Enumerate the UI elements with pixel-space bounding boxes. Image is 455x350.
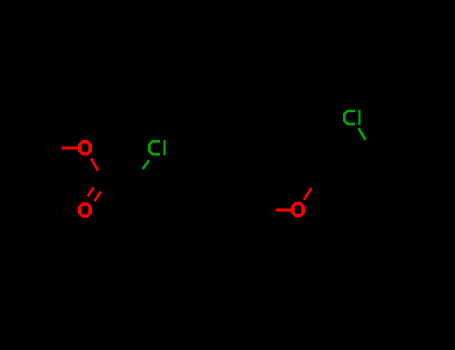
wire: ethyl CH2 to ester O half-bond	[62, 147, 78, 150]
wire: ring C to Cl half-bond (right)	[359, 128, 366, 140]
wire: C=O double bond line 1	[88, 188, 94, 197]
atom O ester	[78, 140, 92, 156]
atom O carbonyl	[78, 202, 92, 218]
atom O ether	[291, 202, 305, 218]
wire: CH to Cl half-bond (left)	[143, 160, 150, 169]
wire: C=O double bond line 2	[95, 192, 101, 202]
wire: ether O to benzyl CH2 half-bond	[304, 188, 311, 200]
wire: phenyl to ether O half-bond	[276, 209, 292, 212]
wire: ester O to carbonyl C half-bond	[91, 159, 98, 171]
atom Cl right	[344, 110, 360, 125]
atom Cl left	[149, 140, 165, 155]
